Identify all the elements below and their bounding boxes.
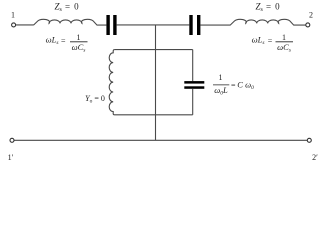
terminal 2: [306, 23, 310, 27]
svg-text:C ω0: C ω0: [237, 79, 254, 91]
capacitor Cs right: [189, 15, 192, 35]
wire: tank top edge: [114, 49, 192, 51]
svg-text:Yo = 0: Yo = 0: [85, 94, 105, 105]
terminal 1': [10, 138, 14, 142]
wire: [117, 24, 190, 26]
svg-text:ωCs: ωCs: [72, 42, 86, 54]
svg-text:1: 1: [282, 33, 286, 42]
formula wLs = 1/wCs left: [46, 33, 88, 53]
svg-text:=: =: [268, 36, 273, 45]
svg-text:ωLs: ωLs: [46, 34, 59, 46]
wire: [16, 24, 34, 26]
inductor Ls right: [200, 19, 305, 25]
capacitor C shunt: [184, 81, 204, 84]
shunt right edge wires: [192, 50, 194, 82]
svg-text:Zs = 0: Zs = 0: [255, 2, 280, 14]
capacitor Cs left: [106, 15, 109, 35]
inductor L (shunt coil): [109, 50, 114, 115]
wire: bottom rail: [14, 139, 307, 141]
wire: tank bottom edge: [115, 114, 193, 116]
svg-text:2′: 2′: [312, 153, 318, 162]
inductor Ls left: [34, 19, 107, 25]
node wire: center shunt vertical: [155, 25, 157, 140]
svg-text:ω0L: ω0L: [214, 85, 228, 97]
svg-text:ωLs: ωLs: [252, 34, 265, 46]
svg-text:1: 1: [77, 33, 81, 42]
formula 1/(w0 L) = C w0: [213, 73, 254, 96]
terminal 2': [307, 138, 311, 142]
svg-text:=: =: [61, 36, 66, 45]
svg-text:Zs = 0: Zs = 0: [54, 2, 79, 14]
svg-text:ωCs: ωCs: [277, 42, 291, 54]
svg-text:1: 1: [11, 11, 15, 20]
svg-text:=: =: [231, 81, 236, 90]
terminal 1: [12, 23, 16, 27]
svg-text:2: 2: [309, 11, 313, 20]
formula wLs = 1/wCs right: [252, 33, 293, 53]
svg-text:1′: 1′: [8, 153, 14, 162]
svg-text:1: 1: [219, 73, 223, 82]
